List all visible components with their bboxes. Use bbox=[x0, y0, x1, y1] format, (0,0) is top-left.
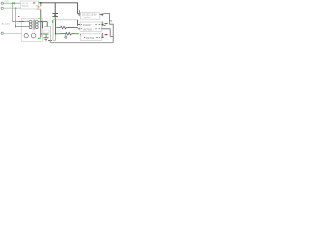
pin mark U3 r1m bbox=[95, 23, 97, 26]
AC plug terminal J1 top bbox=[1, 2, 3, 4]
rectifier U3 box bbox=[80, 22, 101, 32]
wire pale drop to rail bbox=[49, 26, 51, 42]
wire drop v1 bbox=[12, 3, 14, 21]
component pale tiny box bbox=[44, 30, 49, 33]
wire tick green x52 bbox=[51, 20, 54, 23]
pin stub U1 out bbox=[39, 2, 41, 4]
wire vertical lower x77 bbox=[77, 20, 79, 25]
ground bar2b bbox=[45, 40, 46, 43]
ground bar2 bbox=[44, 38, 47, 41]
connector bar U4 in bbox=[81, 33, 84, 36]
wire secondary drop2 bbox=[46, 22, 48, 27]
transformer T1 primary loops bbox=[29, 20, 32, 28]
wire C1 lead lower bbox=[54, 17, 56, 20]
LED D2 body bbox=[65, 36, 67, 38]
wire secondary out green bbox=[38, 20, 41, 23]
pin stub U4 out bbox=[101, 36, 103, 38]
ground bar1 bbox=[43, 36, 48, 39]
LED D2 hanging bbox=[65, 34, 67, 36]
wire primary top bbox=[13, 21, 29, 23]
wire neutral bbox=[3, 7, 20, 9]
connector bar U2 in bbox=[78, 13, 81, 16]
wire right link top bbox=[103, 14, 113, 43]
capacitor C1 plate2 bbox=[52, 15, 58, 18]
svg-text:LM7812: LM7812 bbox=[86, 38, 95, 40]
pin dash U4 l bbox=[84, 36, 85, 39]
wire green tick bottom bbox=[38, 37, 41, 40]
resistor R2 zigzag bbox=[66, 32, 72, 35]
node A junction dot bbox=[12, 3, 13, 4]
label +12V red bbox=[101, 33, 104, 38]
wire top rail bbox=[41, 2, 78, 4]
wire gnd pale foot bbox=[53, 39, 56, 41]
svg-text:1N4007: 1N4007 bbox=[83, 24, 92, 27]
connector bar U2 out bbox=[101, 13, 104, 16]
pin stub U2 out bbox=[100, 14, 104, 16]
wire row1 to box bbox=[67, 27, 77, 29]
pin dash U3 r2l bbox=[81, 27, 82, 30]
wire gnd pale drop2 bbox=[52, 31, 54, 40]
adapter U1 box bbox=[21, 1, 39, 9]
regulator U4 box bbox=[81, 34, 102, 41]
wire right link mid bbox=[104, 29, 114, 37]
wire live green top bbox=[3, 2, 20, 4]
svg-text:LM7805: LM7805 bbox=[83, 29, 93, 32]
pin dash U3 r1r bbox=[99, 23, 101, 26]
pin dash U3 r2r bbox=[99, 27, 101, 30]
node VCC dot bbox=[40, 2, 42, 4]
wire row2 to box bbox=[72, 33, 76, 35]
pin stub U3 in2 bbox=[78, 28, 80, 30]
diode D1 red tick bbox=[80, 34, 82, 36]
label F1 red tick bbox=[18, 15, 20, 18]
pin stub U3 out1 bbox=[101, 24, 103, 26]
pin mark U3 r2m bbox=[95, 27, 97, 30]
wire gnd pale drop1 bbox=[55, 34, 57, 41]
crystal body bbox=[54, 14, 56, 16]
wire cap drop bbox=[54, 3, 56, 13]
wire gnd green seg bbox=[45, 33, 49, 36]
meter M1 circle bbox=[24, 34, 28, 38]
transformer T1 core bbox=[32, 20, 34, 30]
AC plug terminal J3 bottom bbox=[1, 32, 3, 34]
wire primary bottom bbox=[16, 25, 29, 27]
pin dash U3 r1l bbox=[81, 23, 82, 26]
wire tick green out bbox=[104, 25, 106, 26]
connector bar U3 out1 bbox=[101, 22, 104, 27]
transformer T1 secondary loops bbox=[35, 20, 38, 28]
svg-text:module: module bbox=[84, 17, 91, 19]
pin stub U2 in bbox=[78, 13, 81, 15]
fuse F1 red bbox=[19, 20, 24, 23]
wire mid pale horizontal bbox=[53, 19, 78, 21]
wire gnd corner bbox=[41, 33, 45, 35]
wire tick green U3 pin bbox=[76, 23, 79, 26]
wire earth bottom bbox=[3, 33, 21, 35]
transformer T1 box bbox=[22, 19, 43, 42]
wire tick green mid bbox=[38, 17, 40, 20]
wire row2 green right bbox=[76, 32, 79, 35]
wire drop v2 bbox=[15, 8, 17, 26]
label AC green bbox=[14, 25, 17, 28]
ground bar3 bbox=[48, 39, 52, 42]
wire tick green U2 bbox=[78, 10, 81, 13]
wire stub green below node bbox=[39, 4, 42, 7]
pin mark U4 m bbox=[96, 36, 98, 39]
wire row2 dark bbox=[60, 33, 66, 35]
svg-text:AC 220V: AC 220V bbox=[2, 23, 11, 26]
wire bus drop x55 bbox=[55, 20, 57, 34]
AC plug terminal J2 bbox=[1, 7, 3, 9]
wire row1 green bbox=[56, 26, 60, 29]
node D dot bbox=[47, 26, 48, 27]
meter M2 circle bbox=[31, 33, 36, 38]
wire secondary horiz bbox=[41, 21, 47, 23]
wire tap tick green bbox=[13, 2, 16, 4]
transformer T1 core line2 bbox=[34, 20, 36, 30]
label U1 dark dash bbox=[33, 2, 35, 5]
pin stub U3 out2 bbox=[101, 28, 103, 30]
svg-text:Adapter: Adapter bbox=[22, 5, 29, 8]
resistor R1 zigzag bbox=[60, 26, 67, 29]
wire pale drop x53 bbox=[52, 20, 54, 31]
wire bottom rail bbox=[50, 42, 113, 44]
wire arrow mark bbox=[110, 20, 112, 21]
label +5V out red bbox=[105, 23, 108, 24]
capacitor C1 plate1 bbox=[52, 12, 58, 15]
wire ground green drop bbox=[49, 40, 52, 43]
wire adapter gnd rail bbox=[40, 10, 42, 37]
pin dash U4 r bbox=[99, 36, 100, 39]
label +12V red dash bbox=[105, 34, 108, 35]
wire vertical upper x77 bbox=[77, 3, 79, 14]
wire row2 green left bbox=[56, 32, 60, 35]
regulator U2 box bbox=[81, 12, 100, 19]
wire secondary vertical bbox=[41, 22, 43, 29]
node B junction dot bbox=[15, 8, 16, 9]
wire pale link bbox=[44, 25, 51, 27]
wire gnd lead bbox=[45, 34, 47, 37]
pin stub U3 in1 bbox=[78, 24, 80, 26]
node C dot bbox=[55, 33, 57, 35]
